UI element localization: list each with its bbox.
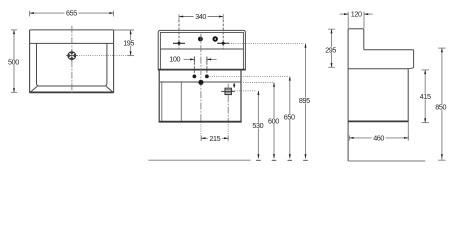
svg-text:340: 340 bbox=[195, 12, 206, 21]
svg-text:500: 500 bbox=[8, 58, 19, 67]
svg-text:415: 415 bbox=[420, 92, 431, 101]
svg-text:215: 215 bbox=[209, 134, 220, 143]
svg-text:600: 600 bbox=[268, 116, 279, 125]
svg-text:655: 655 bbox=[66, 9, 77, 18]
svg-text:195: 195 bbox=[123, 39, 134, 48]
svg-text:460: 460 bbox=[373, 133, 384, 142]
svg-text:530: 530 bbox=[252, 121, 263, 130]
svg-text:295: 295 bbox=[325, 45, 336, 54]
svg-text:100: 100 bbox=[169, 55, 180, 64]
svg-text:895: 895 bbox=[299, 96, 310, 105]
svg-text:120: 120 bbox=[351, 10, 362, 19]
svg-text:650: 650 bbox=[284, 112, 295, 121]
svg-text:850: 850 bbox=[435, 103, 446, 112]
